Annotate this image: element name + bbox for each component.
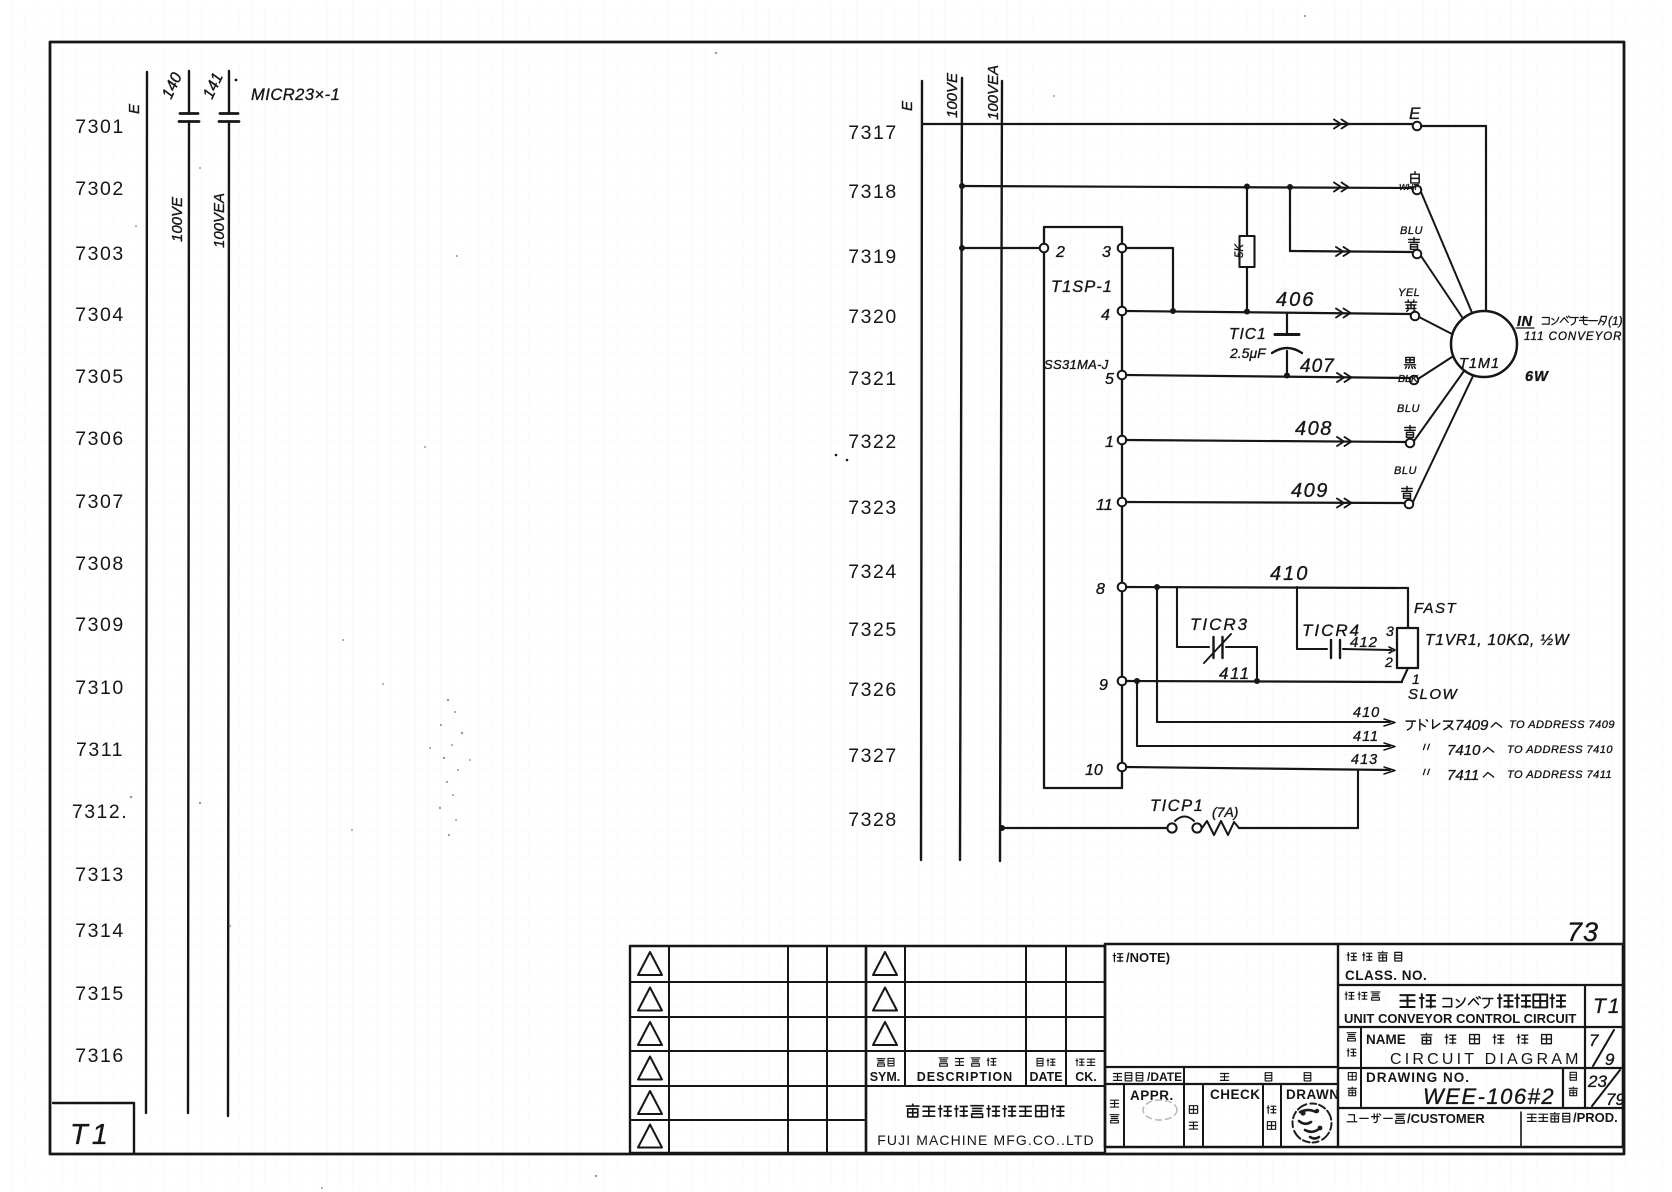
pin 2 — [1040, 244, 1065, 261]
svg-text:100VEA: 100VEA — [985, 65, 1002, 120]
svg-text:YEL: YEL — [1398, 287, 1420, 299]
wire 408 (rung 7322, BLU) — [1126, 418, 1405, 446]
svg-text:1: 1 — [1412, 671, 1420, 687]
wire pin 8 (rung 7324) to TIVR1 pin 3 — [1126, 563, 1408, 628]
svg-text:100VE: 100VE — [944, 72, 961, 118]
company name cell — [877, 1104, 1094, 1148]
label to address 7409 — [1406, 717, 1615, 734]
svg-text:TICR3: TICR3 — [1190, 615, 1249, 634]
svg-text:DATE: DATE — [1029, 1070, 1062, 1084]
svg-text:7411: 7411 — [1447, 767, 1479, 784]
wire 100VEA (left, below capacitor) — [228, 122, 229, 1117]
svg-text:7319: 7319 — [848, 246, 897, 268]
svg-text:7313: 7313 — [75, 864, 124, 886]
revision mark triangle R2 — [873, 988, 897, 1011]
svg-text:7409: 7409 — [1455, 717, 1489, 734]
svg-text:(1): (1) — [1608, 314, 1623, 328]
sheet label box T1 — [53, 1103, 134, 1153]
wire pin 9 (rung 7326) — [1126, 678, 1402, 684]
svg-text:WEE-106#2: WEE-106#2 — [1423, 1084, 1555, 1109]
pin 4 — [1101, 307, 1126, 324]
wire address 411 — [1137, 681, 1395, 750]
svg-text:WHT: WHT — [1399, 182, 1419, 192]
wire 100VEA to TICP1 — [999, 825, 1167, 831]
svg-text:SS31MA-J: SS31MA-J — [1044, 357, 1109, 372]
svg-text:7310: 7310 — [75, 677, 124, 699]
junction on 7318 at BLU branch — [1287, 184, 1293, 190]
revision mark triangle L3 — [638, 1022, 662, 1045]
svg-text:79: 79 — [1606, 1090, 1625, 1109]
svg-text:BLU: BLU — [1400, 225, 1423, 237]
svg-text:BLU: BLU — [1394, 465, 1417, 477]
svg-text:408: 408 — [1295, 418, 1333, 440]
drawing no cell — [1348, 1068, 1625, 1109]
svg-text:2: 2 — [1384, 654, 1393, 670]
revision table — [630, 946, 1105, 1153]
title block — [1105, 944, 1623, 1147]
svg-text:TO ADDRESS 7411: TO ADDRESS 7411 — [1507, 769, 1612, 781]
svg-text:7314: 7314 — [75, 920, 124, 942]
wire 406 (rung 7320, YEL) — [1126, 289, 1412, 318]
svg-text:7307: 7307 — [75, 491, 124, 513]
svg-text:CIRCUIT DIAGRAM: CIRCUIT DIAGRAM — [1390, 1051, 1582, 1068]
node E (left earth bus) — [126, 72, 147, 1113]
svg-text:3: 3 — [1386, 623, 1394, 639]
terminal BLU (409) — [1394, 465, 1417, 508]
svg-text:412: 412 — [1350, 634, 1378, 651]
svg-text:407: 407 — [1300, 356, 1335, 377]
pin 8 — [1096, 581, 1126, 598]
svg-text:111 CONVEYOR: 111 CONVEYOR — [1524, 331, 1623, 343]
terminal BLU (upper) — [1400, 225, 1423, 258]
terminal YEL — [1398, 287, 1420, 320]
wire E (rung 7317) from E bus to motor terminal — [922, 120, 1412, 129]
svg-text:7301: 7301 — [75, 116, 124, 138]
customer cell — [1347, 1110, 1618, 1147]
wire BLU 408 terminal to motor — [1414, 371, 1464, 441]
svg-text:7328: 7328 — [848, 809, 897, 831]
svg-text:7316: 7316 — [75, 1045, 124, 1067]
svg-text:/CUSTOMER: /CUSTOMER — [1407, 1111, 1485, 1126]
capacitor TIC1 2.5uF — [1229, 313, 1302, 379]
svg-text:T1VR1, 10KΩ, ½W: T1VR1, 10KΩ, ½W — [1425, 632, 1570, 649]
svg-text:410: 410 — [1353, 705, 1380, 721]
svg-text:DRAWN: DRAWN — [1286, 1087, 1340, 1102]
svg-text:T1: T1 — [1593, 995, 1622, 1018]
terminal E — [1409, 104, 1421, 130]
svg-text:CHECK: CHECK — [1210, 1087, 1261, 1102]
svg-text:7317: 7317 — [848, 122, 897, 144]
svg-text:T1M1: T1M1 — [1459, 356, 1500, 372]
svg-text:/DATE: /DATE — [1147, 1070, 1182, 1084]
machine name cell — [1344, 985, 1622, 1027]
svg-text:23: 23 — [1587, 1072, 1607, 1091]
capacitor TICR3 — [1177, 587, 1260, 684]
svg-text:DRAWING NO.: DRAWING NO. — [1366, 1070, 1470, 1085]
connector T1SP-1 body — [1044, 227, 1122, 788]
svg-text:7306: 7306 — [75, 428, 124, 450]
capacitor on line 141 (MICR23X-1) — [219, 114, 239, 122]
pin 3 — [1102, 244, 1126, 261]
svg-text:9: 9 — [1099, 677, 1108, 694]
svg-text:E: E — [1409, 104, 1421, 123]
potentiometer TIVR1 10K 1/2W — [1384, 600, 1570, 703]
node E (right earth bus) — [899, 81, 922, 860]
node 100VEA (right bus) — [985, 65, 1002, 861]
capacitor TICR4 — [1297, 587, 1395, 658]
svg-text:BLK: BLK — [1398, 373, 1419, 385]
svg-text:SLOW: SLOW — [1408, 686, 1459, 703]
svg-text:SYM.: SYM. — [870, 1070, 901, 1084]
note cell — [1113, 950, 1170, 965]
wire 409 (rung 7323, BLU) — [1126, 480, 1405, 508]
approval signature row — [1110, 1084, 1339, 1147]
svg-text:TICP1: TICP1 — [1150, 797, 1204, 815]
wire 413 drop to TICP1 line — [1357, 770, 1359, 828]
revision mark triangle R3 — [873, 1022, 897, 1045]
svg-text:7327: 7327 — [848, 745, 897, 767]
terminal BLU (408) — [1397, 403, 1420, 447]
capacitor on line 140 (MICR23X-1) — [179, 114, 199, 122]
svg-text:T1SP-1: T1SP-1 — [1051, 278, 1113, 296]
svg-text:7315: 7315 — [75, 983, 124, 1005]
resistor 5K — [1234, 186, 1255, 311]
pin 5 — [1105, 371, 1126, 388]
svg-text:410: 410 — [1270, 563, 1309, 585]
wire BLU terminal to motor — [1421, 256, 1464, 320]
wire from terminal E to motor top — [1421, 126, 1486, 310]
svg-text:411: 411 — [1219, 664, 1251, 683]
wire 100VE (left, below capacitor) — [188, 122, 189, 1114]
svg-text:10: 10 — [1085, 762, 1103, 779]
svg-text:CLASS. NO.: CLASS. NO. — [1345, 968, 1427, 983]
svg-text:6W: 6W — [1525, 369, 1549, 385]
svg-text:7308: 7308 — [75, 553, 124, 575]
svg-text:411: 411 — [1353, 729, 1379, 745]
svg-text:7325: 7325 — [848, 619, 897, 641]
svg-text:TIC1: TIC1 — [1229, 326, 1267, 343]
label to address 7411 — [1423, 767, 1612, 784]
svg-text:5: 5 — [1105, 371, 1114, 388]
svg-text:BLU: BLU — [1397, 403, 1420, 415]
revision mark triangle L2 — [638, 988, 662, 1011]
date header row — [1113, 1067, 1310, 1084]
svg-text:7324: 7324 — [848, 561, 897, 583]
svg-text:TO ADDRESS 7409: TO ADDRESS 7409 — [1509, 719, 1615, 731]
svg-text:T1: T1 — [70, 1119, 112, 1151]
wire 100VE to T1SP-1 pin 2 (rung 7319) — [959, 245, 1040, 251]
faint stamp in APPR cell — [1143, 1100, 1177, 1120]
svg-text:UNIT CONVEYOR CONTROL CIRCUIT: UNIT CONVEYOR CONTROL CIRCUIT — [1344, 1011, 1576, 1026]
circuit protector TICP1 (7A) — [1150, 797, 1239, 835]
svg-text:7312.: 7312. — [72, 801, 128, 823]
svg-text:7311: 7311 — [76, 739, 124, 761]
svg-text:73: 73 — [1567, 917, 1599, 947]
pin 10 — [1085, 762, 1126, 779]
wire 413 from pin 10 (rung 7327) — [1126, 752, 1395, 774]
svg-text:7410: 7410 — [1447, 742, 1481, 759]
svg-text:CK.: CK. — [1075, 1070, 1097, 1084]
svg-text:413: 413 — [1351, 752, 1378, 768]
revision mark triangle L1 — [638, 952, 662, 975]
node 100VE (right bus) — [944, 72, 962, 860]
revision table header — [870, 1058, 1097, 1084]
svg-text:1: 1 — [1105, 434, 1114, 451]
wire YEL terminal to motor — [1419, 317, 1452, 334]
svg-text:NAME: NAME — [1366, 1032, 1406, 1047]
revision mark triangle L4 — [638, 1057, 662, 1080]
svg-text:2.5μF: 2.5μF — [1229, 345, 1267, 361]
svg-text:4: 4 — [1101, 307, 1110, 324]
svg-text:3: 3 — [1102, 244, 1111, 261]
svg-text:100VE: 100VE — [169, 196, 186, 242]
svg-text:7320: 7320 — [848, 306, 897, 328]
svg-text:7309: 7309 — [75, 614, 124, 636]
wire BLU branch from 7318 down and right to BLU terminal — [1290, 187, 1412, 256]
revision mark triangle R1 — [873, 952, 897, 975]
svg-text:7322: 7322 — [848, 431, 897, 453]
wire TICP1 to 413 drop — [1239, 827, 1358, 829]
svg-text:406: 406 — [1276, 289, 1315, 311]
hanko stamp in DRAWN cell — [1293, 1104, 1332, 1143]
svg-text:2: 2 — [1055, 244, 1065, 261]
wire 100VE to WHT terminal (rung 7318) — [959, 183, 1412, 192]
label IN conveyor motor — [1516, 314, 1623, 343]
wire 141 (100VEA line, upper segment) — [228, 71, 230, 113]
svg-text:(7A): (7A) — [1212, 804, 1238, 820]
svg-text:7323: 7323 — [848, 497, 897, 519]
pin 11 — [1096, 497, 1126, 514]
terminal BLK — [1398, 357, 1419, 385]
svg-text:7318: 7318 — [848, 181, 897, 203]
wire address 410 — [1157, 587, 1395, 726]
svg-text:11: 11 — [1096, 497, 1113, 514]
revision mark triangle L5 — [638, 1091, 662, 1114]
svg-text:/NOTE): /NOTE) — [1126, 950, 1170, 965]
svg-text:7: 7 — [1589, 1031, 1599, 1050]
svg-text:MICR23×-1: MICR23×-1 — [251, 86, 340, 104]
svg-text:7304: 7304 — [75, 304, 124, 326]
wire pin 3 to rung 7320 — [1126, 248, 1176, 314]
svg-text:100VEA: 100VEA — [211, 193, 228, 248]
terminal WHT — [1399, 172, 1421, 195]
wire WHT terminal to motor — [1421, 192, 1473, 315]
pin 9 — [1099, 677, 1126, 694]
svg-text:9: 9 — [1605, 1050, 1615, 1069]
svg-text:7326: 7326 — [848, 679, 897, 701]
junction pin8/410-address — [1154, 584, 1160, 590]
label to address 7410 — [1423, 742, 1613, 759]
motor T1M1 (IN conveyor motor) — [1451, 311, 1517, 377]
svg-text:7302: 7302 — [75, 178, 124, 200]
svg-text:/PROD.: /PROD. — [1573, 1110, 1618, 1125]
wire BLU 409 terminal to motor — [1413, 376, 1473, 502]
junction on 7318 at 5K branch — [1244, 184, 1250, 190]
svg-text:7321: 7321 — [848, 368, 897, 390]
svg-text:DESCRIPTION: DESCRIPTION — [917, 1070, 1013, 1084]
svg-text:7303: 7303 — [75, 243, 124, 265]
class no cell — [1345, 951, 1427, 983]
wire 407 (rung 7321, BLK) — [1126, 356, 1412, 382]
svg-text:FAST: FAST — [1414, 600, 1458, 617]
wire 140 (100VE line, upper segment) — [188, 71, 190, 113]
svg-text:409: 409 — [1291, 480, 1329, 502]
name cell — [1347, 1027, 1615, 1069]
svg-text:5K: 5K — [1234, 243, 1246, 258]
svg-text:7305: 7305 — [75, 366, 124, 388]
svg-text:8: 8 — [1096, 581, 1105, 598]
pin 1 — [1105, 434, 1126, 451]
svg-text:TO ADDRESS 7410: TO ADDRESS 7410 — [1507, 744, 1613, 756]
svg-text:E: E — [899, 100, 916, 111]
wire BLK terminal to motor — [1418, 357, 1452, 379]
revision mark triangle L6 — [638, 1125, 662, 1148]
svg-text:E: E — [126, 103, 143, 114]
svg-text:FUJI MACHINE MFG.CO..LTD: FUJI MACHINE MFG.CO..LTD — [877, 1132, 1094, 1148]
